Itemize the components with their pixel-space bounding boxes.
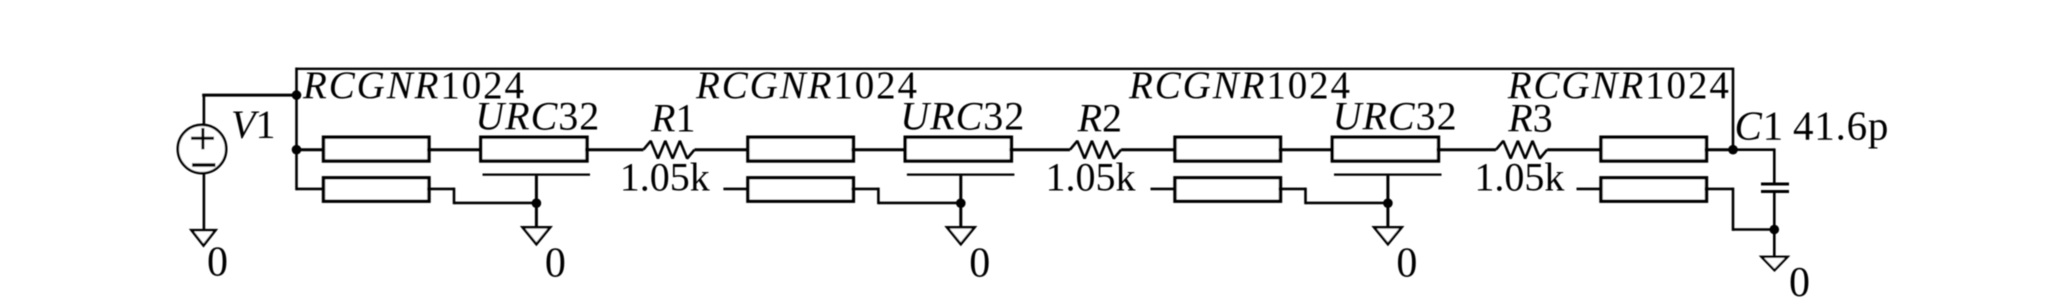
svg-text:1.05k: 1.05k bbox=[1046, 155, 1136, 200]
capacitor plate under URC box (block 2) bbox=[907, 174, 1015, 176]
wire stub lower-left port (block 3) bbox=[1151, 188, 1178, 191]
resistor R2 zigzag bbox=[1070, 141, 1121, 159]
junction dot cap/ground (block 2) bbox=[956, 198, 966, 208]
wire V1 top lead bbox=[203, 95, 206, 125]
junction dot input node bbox=[292, 145, 302, 155]
series resistor box lower (block 3) bbox=[1175, 178, 1281, 201]
wire V1 to input node bbox=[202, 94, 296, 97]
junction dot output node bbox=[1728, 145, 1738, 155]
ground symbol (block 1) bbox=[523, 227, 551, 244]
capacitor C1 bbox=[1761, 183, 1789, 186]
ground symbol at C1 bbox=[1762, 257, 1788, 271]
capacitor plate under URC box (block 1) bbox=[483, 174, 591, 176]
wire R2 to series box (block 3) bbox=[1121, 148, 1177, 151]
series resistor box upper (block 4) bbox=[1601, 137, 1707, 161]
svg-text:R1: R1 bbox=[650, 96, 695, 141]
wire URC box to R3 bbox=[1437, 148, 1497, 151]
series resistor box lower (block 2) bbox=[748, 178, 854, 201]
wire box to URC box (block 1) bbox=[427, 148, 483, 151]
wire R3 to series box (block 4) bbox=[1547, 148, 1603, 151]
svg-text:URC32: URC32 bbox=[900, 94, 1025, 139]
wire box to URC box (block 2) bbox=[851, 148, 907, 151]
wire input node to lower port (block 1) bbox=[297, 188, 326, 191]
svg-text:RCGNR1024: RCGNR1024 bbox=[1128, 64, 1352, 107]
capacitor plate under URC box (block 3) bbox=[1334, 174, 1442, 176]
junction dot C1 bottom bbox=[1770, 225, 1780, 235]
svg-text:V1: V1 bbox=[231, 102, 275, 147]
wire URC box to R1 bbox=[585, 148, 643, 151]
wire stub lower-left port (block 2) bbox=[723, 188, 750, 191]
svg-text:URC32: URC32 bbox=[1333, 94, 1458, 139]
svg-text:C1 41.6p: C1 41.6p bbox=[1735, 103, 1890, 149]
wire output node to C1 bbox=[1733, 148, 1774, 151]
svg-text:0: 0 bbox=[207, 240, 228, 286]
junction dot V1/top-node bbox=[292, 90, 302, 100]
svg-text:R2: R2 bbox=[1077, 96, 1122, 141]
wire lower step from box (block 1) bbox=[427, 188, 454, 191]
series resistor box lower (block 4) bbox=[1601, 178, 1707, 201]
svg-text:RCGNR1024: RCGNR1024 bbox=[1507, 64, 1731, 107]
wire box to URC box (block 3) bbox=[1279, 148, 1335, 151]
svg-text:0: 0 bbox=[1396, 241, 1417, 287]
svg-text:0: 0 bbox=[1789, 260, 1810, 298]
series resistor box upper (block 3) bbox=[1175, 137, 1281, 161]
svg-text:RCGNR1024: RCGNR1024 bbox=[695, 64, 919, 107]
wire block4 lower step to C1 bottom bbox=[1705, 188, 1734, 191]
URC distributed-RC box U2 bbox=[905, 137, 1011, 161]
junction dot cap/ground (block 1) bbox=[532, 198, 542, 208]
voltage source V1 circle bbox=[178, 125, 226, 173]
URC distributed-RC box U3 bbox=[1332, 137, 1438, 161]
svg-text:URC32: URC32 bbox=[475, 94, 600, 139]
wire lower step from box (block 2) bbox=[851, 188, 878, 191]
wire URC cap lead down (block 2) bbox=[959, 176, 962, 228]
wire right vertical (output node drop) bbox=[1732, 68, 1735, 150]
svg-text:1.05k: 1.05k bbox=[1474, 155, 1564, 200]
svg-text:1.05k: 1.05k bbox=[620, 155, 710, 200]
V1 plus sign bbox=[191, 137, 214, 140]
wire top bus (input node to output node) bbox=[297, 68, 1734, 70]
junction dot cap/ground (block 3) bbox=[1383, 198, 1393, 208]
ground symbol (block 2) bbox=[947, 227, 975, 244]
wire block4 box to output node bbox=[1705, 148, 1734, 151]
resistor R3 zigzag bbox=[1496, 141, 1547, 159]
wire URC cap lead down (block 3) bbox=[1386, 176, 1389, 228]
wire V1 bottom lead bbox=[203, 174, 206, 231]
wire input node to series box (block 1) bbox=[297, 148, 326, 151]
svg-text:0: 0 bbox=[969, 241, 990, 287]
wire left vertical (input node) bbox=[295, 68, 298, 191]
series resistor box lower (block 1) bbox=[324, 178, 430, 201]
wire R1 to series box (block 2) bbox=[695, 148, 750, 151]
series resistor box upper (block 1) bbox=[324, 137, 430, 161]
ground symbol at V1 bbox=[192, 230, 216, 245]
wire C1 bottom lead bbox=[1773, 193, 1776, 257]
resistor R1 zigzag bbox=[643, 141, 694, 159]
wire lower step from box (block 3) bbox=[1279, 188, 1306, 191]
V1 minus sign bbox=[192, 163, 216, 166]
ground symbol (block 3) bbox=[1374, 227, 1402, 244]
URC distributed-RC box U1 bbox=[481, 137, 587, 161]
svg-text:0: 0 bbox=[545, 241, 566, 287]
wire stub lower-left port (block 4) bbox=[1577, 188, 1604, 191]
wire URC cap lead down (block 1) bbox=[535, 176, 538, 228]
series resistor box upper (block 2) bbox=[748, 137, 854, 161]
wire URC box to R2 bbox=[1009, 148, 1070, 151]
